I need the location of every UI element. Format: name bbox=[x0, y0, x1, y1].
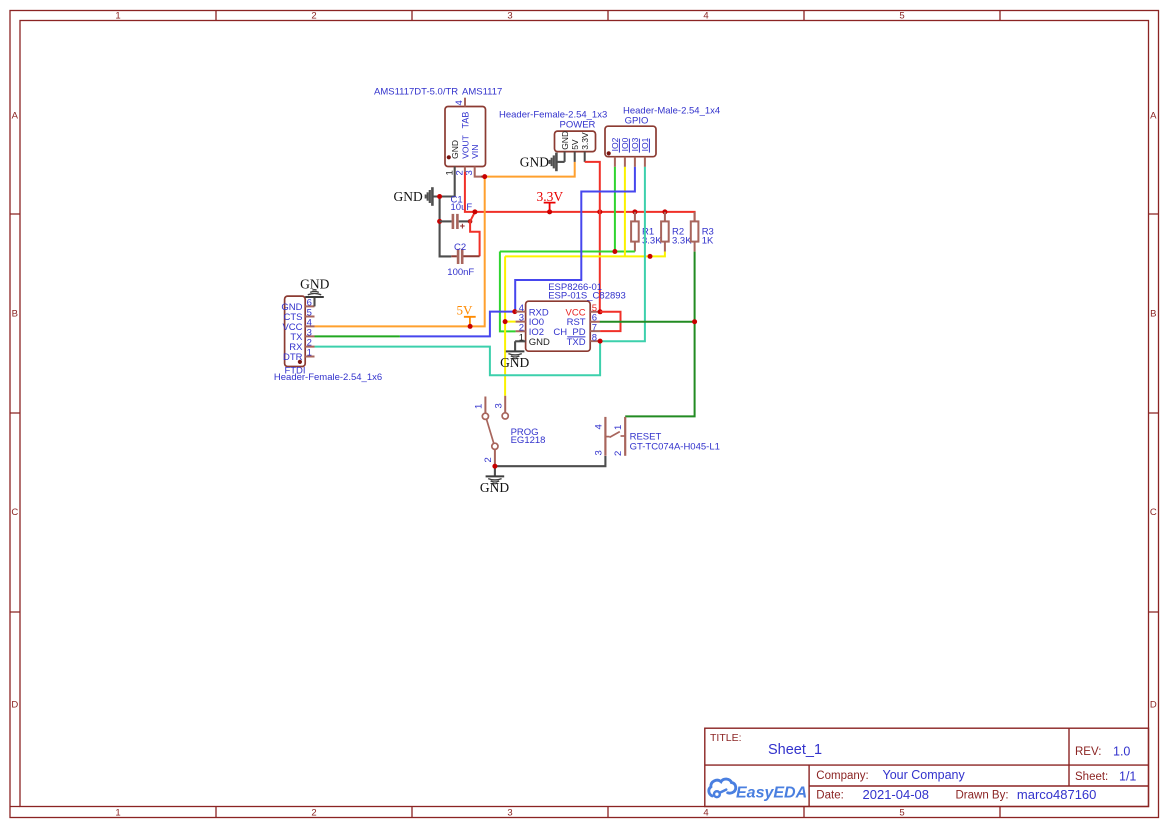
wire yellow IO0 net bbox=[505, 167, 665, 396]
svg-text:GPIO: GPIO bbox=[625, 115, 649, 126]
TITLE BLOCK bbox=[705, 728, 1149, 806]
svg-text:GND: GND bbox=[520, 154, 549, 169]
junction PROG pin2 bbox=[492, 464, 497, 469]
svg-text:4: 4 bbox=[593, 424, 604, 429]
junction RST bbox=[692, 319, 697, 324]
svg-text:3.3K: 3.3K bbox=[672, 236, 692, 247]
svg-text:TXD: TXD bbox=[567, 337, 586, 348]
svg-text:1/1: 1/1 bbox=[1119, 770, 1136, 784]
svg-text:GND: GND bbox=[529, 337, 550, 348]
svg-text:IO1: IO1 bbox=[640, 137, 650, 151]
svg-text:+: + bbox=[460, 221, 465, 231]
wire GND down to C1 and C2 bbox=[440, 197, 452, 257]
svg-text:IO3: IO3 bbox=[630, 137, 640, 151]
svg-text:1: 1 bbox=[115, 808, 120, 819]
svg-text:5: 5 bbox=[899, 808, 904, 819]
svg-text:ESP-01S_C82893: ESP-01S_C82893 bbox=[548, 290, 626, 301]
svg-text:3: 3 bbox=[507, 808, 512, 819]
junction 5V on orange bbox=[468, 324, 473, 329]
wire AMS pin3 to 5V node bbox=[475, 167, 485, 177]
svg-text:2: 2 bbox=[311, 808, 316, 819]
svg-text:100nF: 100nF bbox=[447, 267, 474, 278]
net label 3.3V bbox=[536, 189, 563, 212]
svg-text:IO0: IO0 bbox=[620, 137, 630, 151]
wire AMS pin2 to 3.3V rail bbox=[465, 167, 475, 212]
net label 5V bbox=[457, 302, 476, 326]
svg-text:1: 1 bbox=[519, 332, 524, 343]
junction rail R2 bbox=[662, 209, 667, 214]
svg-text:EasyEDA: EasyEDA bbox=[736, 785, 807, 802]
wire teal IO1 net bbox=[315, 167, 645, 375]
svg-text:5V: 5V bbox=[457, 302, 474, 317]
svg-text:POWER: POWER bbox=[560, 119, 596, 130]
svg-text:D: D bbox=[11, 700, 18, 711]
regulator U1 AMS1117 bbox=[374, 87, 502, 176]
svg-text:Your Company: Your Company bbox=[883, 768, 966, 782]
header FTDI bbox=[274, 296, 382, 383]
svg-text:1: 1 bbox=[307, 347, 312, 358]
svg-text:GT-TC074A-H045-L1: GT-TC074A-H045-L1 bbox=[630, 441, 720, 452]
junction at ESP RXD bbox=[512, 309, 517, 314]
easyeda logo bbox=[709, 779, 736, 797]
svg-text:1K: 1K bbox=[702, 236, 714, 247]
junction rail 3.3V label bbox=[547, 209, 552, 214]
svg-text:3: 3 bbox=[493, 403, 504, 408]
ground under PROG bbox=[480, 466, 509, 495]
svg-text:C: C bbox=[11, 507, 18, 518]
svg-text:REV:: REV: bbox=[1075, 746, 1101, 758]
wire C1 to 3.3V rail (diagonal) bbox=[470, 212, 475, 222]
capacitor C2 bbox=[447, 242, 479, 278]
junction rail bbox=[472, 209, 477, 214]
svg-text:VIN: VIN bbox=[470, 145, 480, 159]
ground under ESP bbox=[500, 341, 529, 370]
wire RST dark green bbox=[600, 321, 695, 323]
svg-text:Date:: Date: bbox=[816, 790, 844, 802]
svg-text:C: C bbox=[1150, 507, 1157, 518]
svg-text:Drawn By:: Drawn By: bbox=[956, 790, 1009, 802]
wire 5V orange to POWER header bbox=[485, 162, 575, 177]
resistor R3 bbox=[691, 212, 714, 252]
resistor R2 bbox=[661, 212, 692, 252]
svg-text:3.3V: 3.3V bbox=[580, 132, 590, 150]
svg-text:GND: GND bbox=[560, 131, 570, 150]
svg-text:5V: 5V bbox=[570, 139, 580, 150]
svg-text:2021-04-08: 2021-04-08 bbox=[863, 787, 930, 802]
wire C1 down to C2 bbox=[470, 221, 480, 256]
svg-text:TAB: TAB bbox=[461, 112, 471, 129]
ground near C1 bbox=[426, 187, 433, 206]
svg-text:marco487160: marco487160 bbox=[1017, 787, 1097, 802]
junction rail R1 bbox=[632, 209, 637, 214]
svg-text:EG1218: EG1218 bbox=[511, 435, 546, 446]
svg-text:1: 1 bbox=[474, 404, 485, 409]
svg-text:A: A bbox=[1150, 111, 1157, 122]
svg-text:TITLE:: TITLE: bbox=[710, 732, 742, 744]
svg-text:B: B bbox=[12, 309, 18, 320]
wire green TX segment bbox=[315, 335, 400, 337]
svg-text:VOUT: VOUT bbox=[460, 135, 470, 159]
svg-text:B: B bbox=[1150, 309, 1156, 320]
svg-text:IO2: IO2 bbox=[610, 137, 620, 151]
ground above FTDI (flipped) bbox=[300, 277, 329, 297]
svg-text:Company:: Company: bbox=[816, 770, 868, 782]
svg-text:AMS1117DT-5.0/TR: AMS1117DT-5.0/TR bbox=[374, 87, 458, 98]
svg-text:D: D bbox=[1150, 700, 1157, 711]
svg-text:Sheet_1: Sheet_1 bbox=[768, 742, 822, 758]
wire AMS pin1 to GND bbox=[454, 167, 456, 197]
wire green IO2 net bbox=[500, 167, 635, 332]
ground near POWER bbox=[550, 153, 557, 172]
svg-text:C2: C2 bbox=[454, 242, 466, 253]
svg-text:GND: GND bbox=[500, 355, 529, 370]
svg-text:A: A bbox=[12, 111, 19, 122]
svg-text:Header-Female-2.54_1x6: Header-Female-2.54_1x6 bbox=[274, 372, 382, 383]
header POWER bbox=[499, 110, 607, 162]
svg-text:GND: GND bbox=[394, 189, 423, 204]
switch PROG EG1218 bbox=[474, 396, 546, 466]
junction ESP VCC bbox=[598, 309, 603, 314]
svg-text:8: 8 bbox=[592, 332, 597, 343]
header GPIO bbox=[605, 106, 720, 167]
svg-text:4: 4 bbox=[454, 100, 465, 105]
junction green bbox=[612, 249, 617, 254]
junction at C1 right bbox=[468, 219, 473, 224]
wire 5V orange down to FTDI VCC bbox=[315, 177, 485, 327]
svg-text:1: 1 bbox=[613, 425, 624, 430]
svg-text:2: 2 bbox=[483, 457, 494, 462]
wire POWER 3.3 pin to rail and ESP VCC bbox=[585, 162, 600, 312]
resistor R1 bbox=[631, 212, 662, 252]
svg-text:AMS1117: AMS1117 bbox=[462, 87, 502, 98]
junction 5V bbox=[482, 174, 487, 179]
switch RESET GT-TC074A-H045-L1 bbox=[593, 417, 719, 456]
wire GND to AMS pin1 bbox=[432, 195, 454, 197]
svg-text:2: 2 bbox=[613, 451, 624, 456]
svg-text:GND: GND bbox=[480, 480, 509, 495]
wire FTDI pin6 up to ground bbox=[313, 298, 315, 307]
svg-text:Sheet:: Sheet: bbox=[1075, 771, 1108, 783]
svg-text:1.0: 1.0 bbox=[1113, 745, 1130, 759]
junction yellow at ESP IO0 bbox=[503, 319, 508, 324]
wire R3 to RESET dark green bbox=[625, 252, 694, 417]
wire POWER GND pin to ground bbox=[556, 161, 564, 163]
svg-text:GND: GND bbox=[450, 140, 460, 159]
junction bbox=[437, 194, 442, 199]
wire PROG to RESET black bbox=[495, 456, 606, 466]
junction rail VCC drop bbox=[597, 209, 602, 214]
wire VCC to CH_PD bbox=[600, 312, 620, 331]
svg-text:DTR: DTR bbox=[283, 352, 303, 363]
svg-text:1: 1 bbox=[115, 11, 120, 22]
svg-text:3: 3 bbox=[507, 11, 512, 22]
wire 3.3V rail bbox=[475, 212, 695, 222]
svg-text:2: 2 bbox=[311, 11, 316, 22]
svg-text:GND: GND bbox=[300, 277, 329, 292]
wire blue IO3 net bbox=[515, 167, 635, 312]
ESP8266 U2 bbox=[515, 282, 626, 351]
svg-text:3: 3 bbox=[593, 450, 604, 455]
wire blue from FTDI TX bbox=[400, 312, 515, 337]
svg-text:4: 4 bbox=[703, 808, 708, 819]
svg-text:3.3V: 3.3V bbox=[536, 189, 563, 204]
junction yellow bbox=[648, 254, 653, 259]
svg-text:5: 5 bbox=[899, 11, 904, 22]
junction bbox=[437, 219, 442, 224]
svg-text:4: 4 bbox=[703, 11, 708, 22]
junction ESP TXD bbox=[598, 339, 603, 344]
capacitor C1 bbox=[440, 194, 473, 230]
